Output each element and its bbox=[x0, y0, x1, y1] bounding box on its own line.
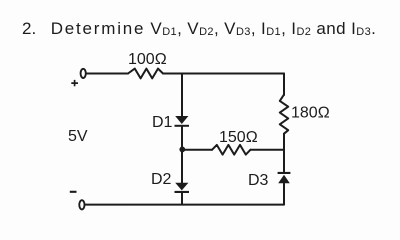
wire node B to resistor R2 bbox=[182, 149, 212, 151]
svg-text:D2: D2 bbox=[151, 171, 172, 188]
wire diode D1 to node B bbox=[181, 126, 183, 150]
wire resistor R2 to node C bbox=[250, 149, 284, 151]
wire node A to top-right corner bbox=[182, 73, 284, 75]
title text bbox=[22, 19, 376, 39]
wire node C down to diode D3 bbox=[283, 150, 285, 172]
wire diode D3 to bottom-right corner bbox=[283, 184, 285, 205]
wire resistor R3 to node C bbox=[283, 134, 285, 150]
diode D2 symbol (cathode down) bbox=[175, 183, 188, 191]
diode D3 symbol (cathode up) bbox=[278, 175, 290, 184]
wire top-left to resistor R1 bbox=[86, 73, 128, 75]
node B junction dot bbox=[179, 147, 185, 153]
terminal + (top-left open circle) bbox=[81, 69, 86, 78]
svg-text:D1: D1 bbox=[152, 114, 173, 131]
diode D1 symbol (cathode down) bbox=[175, 116, 188, 124]
wire right rail top to resistor R3 bbox=[283, 74, 285, 96]
resistor R1 100ohm zigzag bbox=[128, 69, 163, 79]
resistor R2 150ohm zigzag bbox=[212, 145, 250, 155]
label - polarity bbox=[70, 191, 77, 193]
bottom rail wire bbox=[85, 204, 284, 206]
svg-text:5V: 5V bbox=[68, 128, 88, 145]
svg-text:100Ω: 100Ω bbox=[128, 51, 167, 68]
svg-text:150Ω: 150Ω bbox=[219, 129, 258, 146]
svg-text:D3: D3 bbox=[248, 172, 269, 189]
label + polarity bbox=[71, 80, 78, 86]
resistor R3 180ohm zigzag bbox=[280, 95, 288, 134]
wire node A down to diode D1 bbox=[181, 74, 183, 117]
svg-text:180Ω: 180Ω bbox=[291, 105, 330, 122]
wire diode D2 to bottom rail bbox=[181, 192, 183, 205]
wire resistor R1 to node A bbox=[163, 73, 182, 75]
wire node B down to diode D2 bbox=[181, 150, 183, 183]
terminal - (bottom-left open circle) bbox=[79, 200, 84, 209]
